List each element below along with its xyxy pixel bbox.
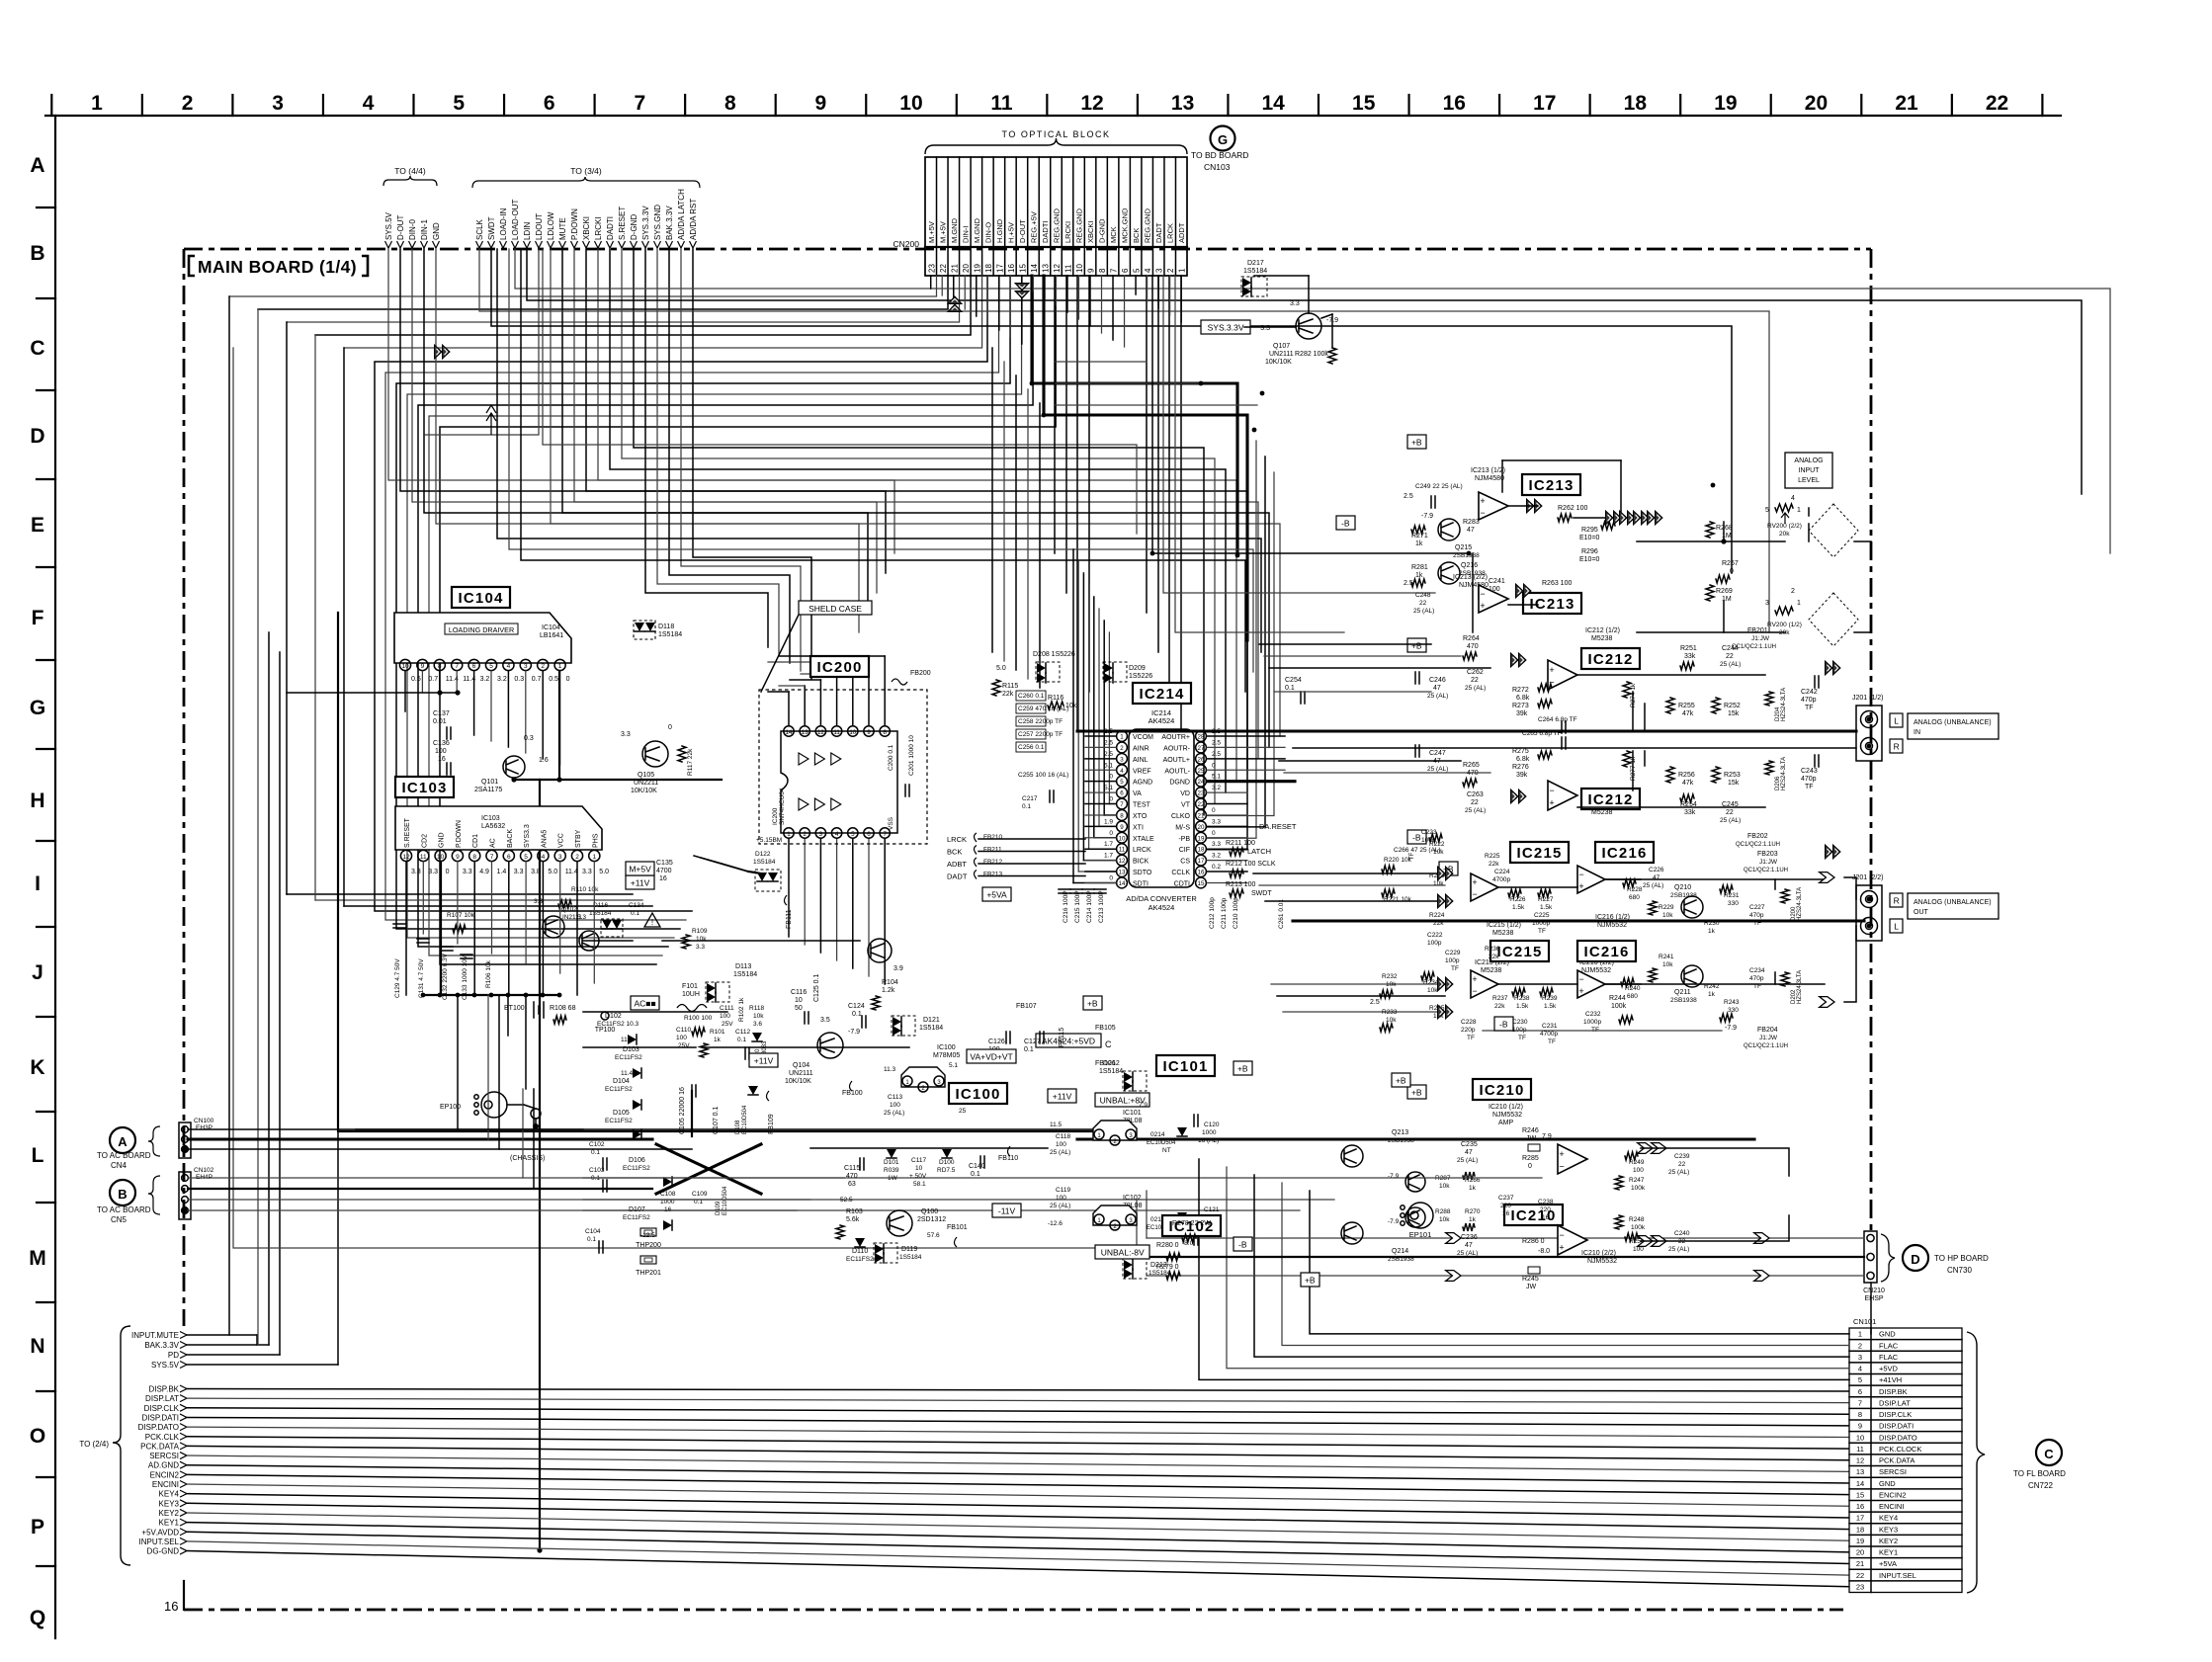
svg-text:0: 0 <box>1109 796 1113 803</box>
boxed label AK4524:+5VD <box>1036 1034 1101 1047</box>
svg-text:C247: C247 <box>1429 750 1446 757</box>
svg-text:R273: R273 <box>1512 703 1529 709</box>
svg-text:TO HP BOARD: TO HP BOARD <box>1934 1254 1989 1263</box>
arrow up CN200 pin20 <box>948 296 962 312</box>
svg-text:3.5: 3.5 <box>820 1017 830 1024</box>
op-amp IC212 (2/2) <box>1548 781 1577 810</box>
svg-text:0.1: 0.1 <box>591 1149 600 1156</box>
svg-text:R107 10k: R107 10k <box>447 912 475 919</box>
svg-text:R263 100: R263 100 <box>1542 580 1572 587</box>
svg-text:D101: D101 <box>884 1159 899 1166</box>
svg-text:Q211: Q211 <box>1674 989 1691 996</box>
svg-text:9: 9 <box>867 729 871 736</box>
svg-text:R243: R243 <box>1724 999 1740 1006</box>
svg-text:25 (AL): 25 (AL) <box>1427 766 1448 773</box>
svg-text:0.01: 0.01 <box>433 718 447 725</box>
svg-text:2SB1938: 2SB1938 <box>1453 552 1480 559</box>
wire lower power rails <box>583 1177 844 1179</box>
svg-text:0.3: 0.3 <box>514 676 524 683</box>
svg-text:LRCKI: LRCKI <box>594 216 603 240</box>
svg-text:R106 10k: R106 10k <box>485 959 492 988</box>
svg-text:SWDT: SWDT <box>487 216 496 240</box>
svg-text:D108: D108 <box>735 1120 741 1134</box>
hatched chevron IC215 in <box>1438 867 1454 880</box>
svg-text:R248: R248 <box>1629 1216 1645 1223</box>
resistor R274 R277 1k <box>1623 682 1631 698</box>
svg-text:+: + <box>1480 601 1485 611</box>
svg-text:3.8: 3.8 <box>531 869 541 875</box>
svg-text:AOUTL+: AOUTL+ <box>1163 757 1190 764</box>
svg-text:10k: 10k <box>753 1013 764 1020</box>
svg-text:R117 22k: R117 22k <box>687 748 694 776</box>
svg-text:C133 1000 10V: C133 1000 10V <box>462 955 468 1000</box>
svg-text:KEY4: KEY4 <box>159 1490 180 1499</box>
svg-text:C258 2200p TF: C258 2200p TF <box>1018 718 1063 725</box>
svg-text:C121: C121 <box>1204 1206 1220 1213</box>
svg-text:R255: R255 <box>1678 703 1695 709</box>
op-amp IC210 label box top <box>1473 1079 1531 1100</box>
svg-text:DISP.DATI: DISP.DATI <box>142 1413 180 1422</box>
svg-text:AOUTL-: AOUTL- <box>1164 768 1190 775</box>
svg-text:C227: C227 <box>1749 904 1765 911</box>
wire headphone bus <box>1077 1137 1754 1140</box>
svg-text:IC200: IC200 <box>817 659 863 676</box>
svg-text:Q210: Q210 <box>1674 884 1691 891</box>
svg-text:R102 1k: R102 1k <box>738 997 745 1022</box>
svg-text:-12.6: -12.6 <box>1048 1220 1063 1227</box>
svg-text:C214 100P: C214 100P <box>1086 890 1093 923</box>
svg-text:R211 100: R211 100 <box>1226 840 1255 847</box>
svg-text:1: 1 <box>592 854 596 861</box>
svg-text:+5VD: +5VD <box>1879 1365 1899 1373</box>
svg-text:100: 100 <box>1633 1167 1644 1174</box>
svg-text:Q107: Q107 <box>1273 343 1290 350</box>
svg-text:25: 25 <box>959 1108 967 1115</box>
svg-text:33k: 33k <box>1684 653 1696 660</box>
svg-text:8: 8 <box>438 663 442 670</box>
svg-text:3: 3 <box>558 854 562 861</box>
svg-text:EHSP: EHSP <box>1864 1295 1883 1302</box>
wire bus CN200 mid fan (family B) <box>375 276 987 911</box>
svg-text:FB115: FB115 <box>1059 1028 1065 1047</box>
svg-text:15: 15 <box>1198 880 1205 887</box>
svg-text:K: K <box>30 1056 44 1079</box>
svg-text:2SB1938: 2SB1938 <box>1670 997 1697 1004</box>
svg-text:-7.9: -7.9 <box>848 1029 860 1036</box>
svg-text:MAIN BOARD (1/4): MAIN BOARD (1/4) <box>198 257 357 277</box>
svg-text:−: − <box>1549 786 1554 795</box>
svg-text:ENCIN2: ENCIN2 <box>1879 1490 1907 1499</box>
svg-text:11: 11 <box>833 729 840 736</box>
wire CN200 right feeders to analog <box>1152 276 1469 553</box>
boxed label M+5V <box>626 862 654 875</box>
svg-text:0.7: 0.7 <box>428 676 438 683</box>
svg-text:7: 7 <box>1858 1398 1862 1407</box>
svg-text:-B: -B <box>1412 832 1421 842</box>
transistor Q104 UN2111 <box>817 1033 843 1058</box>
connector CN100 EH3P to AC board <box>179 1122 191 1158</box>
svg-text:19: 19 <box>973 264 981 273</box>
svg-text:R109: R109 <box>692 928 708 935</box>
op-amp IC210 (2/2) <box>1558 1225 1587 1255</box>
svg-text:SYS.5V: SYS.5V <box>384 211 393 240</box>
svg-text:C246: C246 <box>1429 677 1446 684</box>
svg-text:+B: +B <box>1411 640 1422 650</box>
svg-text:27: 27 <box>1198 745 1205 752</box>
svg-text:50: 50 <box>795 1005 803 1012</box>
svg-text:LRCK: LRCK <box>1166 223 1175 243</box>
svg-text:R232: R232 <box>1382 973 1398 980</box>
svg-text:CCLK: CCLK <box>1171 870 1190 876</box>
svg-text:C103: C103 <box>589 1167 605 1174</box>
svg-text:10: 10 <box>1119 835 1126 842</box>
svg-text:REG.GND: REG.GND <box>1053 208 1062 243</box>
regulator IC103 chip LA5632 <box>395 806 602 850</box>
svg-text:3.2: 3.2 <box>1212 853 1221 860</box>
zener D202 D203 <box>1781 972 1789 986</box>
svg-text:3.3: 3.3 <box>514 869 524 875</box>
svg-text:R212 100 SCLK: R212 100 SCLK <box>1226 861 1276 868</box>
svg-text:R118: R118 <box>749 1005 764 1012</box>
svg-text:G: G <box>30 697 45 719</box>
svg-text:22k: 22k <box>1494 1003 1505 1010</box>
svg-text:19: 19 <box>1856 1537 1864 1545</box>
svg-text:C120: C120 <box>1204 1122 1220 1128</box>
svg-text:FLAC: FLAC <box>1879 1353 1899 1362</box>
svg-text:6: 6 <box>867 831 871 838</box>
svg-text:FB211: FB211 <box>983 847 1002 854</box>
svg-text:C237: C237 <box>1498 1195 1514 1202</box>
svg-text:C248: C248 <box>1415 592 1431 599</box>
svg-text:9: 9 <box>1858 1422 1862 1431</box>
svg-text:1000: 1000 <box>1202 1129 1217 1136</box>
svg-text:SERCSI: SERCSI <box>149 1452 179 1460</box>
svg-text:AK4524: AK4524 <box>1149 716 1175 725</box>
svg-text:IC210 (1/2): IC210 (1/2) <box>1489 1104 1523 1111</box>
svg-text:C135: C135 <box>656 860 673 867</box>
svg-text:KEY2: KEY2 <box>159 1509 180 1518</box>
svg-text:5: 5 <box>453 92 465 115</box>
svg-text:IC212: IC212 <box>1588 651 1634 668</box>
svg-text:R241: R241 <box>1659 954 1674 960</box>
svg-text:21: 21 <box>1895 92 1918 115</box>
svg-text:UN2111: UN2111 <box>1269 351 1294 358</box>
svg-text:47k: 47k <box>1682 780 1694 787</box>
svg-text:C140: C140 <box>969 1163 985 1170</box>
svg-text:+: + <box>1472 974 1477 984</box>
svg-text:22k: 22k <box>1002 691 1014 698</box>
svg-text:R115: R115 <box>1002 683 1018 690</box>
brace TO (2/4) <box>113 1326 130 1565</box>
svg-text:0: 0 <box>1212 807 1216 814</box>
svg-text:C125 0.1: C125 0.1 <box>813 973 820 1002</box>
lamp EP101 <box>1407 1203 1433 1228</box>
svg-text:BCK: BCK <box>947 848 962 857</box>
svg-text:330: 330 <box>1728 900 1739 907</box>
boxed label AC5B <box>631 996 659 1010</box>
svg-text:DISP.BK: DISP.BK <box>148 1385 179 1394</box>
svg-text:R247: R247 <box>1629 1177 1645 1184</box>
arrow chevrons M row <box>1446 1233 1461 1244</box>
svg-text:D104: D104 <box>613 1078 630 1085</box>
svg-text:R104: R104 <box>882 979 898 986</box>
svg-text:DISP.CLK: DISP.CLK <box>1879 1410 1912 1419</box>
svg-text:CN200: CN200 <box>893 239 920 249</box>
svg-text:1S5184: 1S5184 <box>1243 268 1267 275</box>
svg-text:C108: C108 <box>660 1191 676 1198</box>
svg-text:MCK.GND: MCK.GND <box>1121 208 1130 243</box>
svg-text:23: 23 <box>927 264 936 273</box>
svg-text:FLAC: FLAC <box>1879 1341 1899 1350</box>
svg-text:IC213 (2/2): IC213 (2/2) <box>1453 574 1488 581</box>
svg-text:EC10D504: EC10D504 <box>742 1105 748 1134</box>
svg-text:+: + <box>1559 1243 1564 1253</box>
svg-text:5: 5 <box>851 831 855 838</box>
chevron hatched headphone <box>1638 1143 1653 1154</box>
wire bus bottom long lines to CN101 <box>187 1389 1849 1392</box>
svg-text:D-GND: D-GND <box>630 214 638 240</box>
svg-text:IN: IN <box>1914 729 1920 736</box>
svg-text:C112: C112 <box>735 1029 750 1036</box>
op-amp IC101 label box <box>1156 1055 1215 1076</box>
svg-text:5.1: 5.1 <box>1104 785 1113 791</box>
svg-text:C224: C224 <box>1494 869 1510 875</box>
svg-text:1.7: 1.7 <box>1104 841 1113 848</box>
wire thick IC104 net down <box>539 780 541 1550</box>
svg-text:R270: R270 <box>1465 1208 1481 1215</box>
wire CN101 rows 1-5 to left <box>1310 1191 1849 1334</box>
svg-text:EP101: EP101 <box>1409 1230 1432 1239</box>
svg-text:Q102: Q102 <box>561 906 577 913</box>
svg-text:11.4: 11.4 <box>621 1070 634 1077</box>
svg-text:DIN-0: DIN-0 <box>408 219 417 240</box>
transistor Q215 2SB1938 <box>1438 519 1460 540</box>
svg-text:C118: C118 <box>1056 1133 1070 1140</box>
svg-text:HZS24-3LTA: HZS24-3LTA <box>1797 887 1803 921</box>
svg-text:1S5184: 1S5184 <box>899 1254 922 1261</box>
wire Q107 area <box>1244 326 1296 328</box>
svg-text:15: 15 <box>1352 92 1376 115</box>
svg-text:4: 4 <box>1791 495 1795 502</box>
svg-text:52.5: 52.5 <box>840 1197 853 1204</box>
svg-text:TO BD BOARD: TO BD BOARD <box>1191 150 1248 160</box>
svg-text:1: 1 <box>91 92 103 115</box>
op-amp IC215 (1/2) <box>1471 873 1498 901</box>
svg-text:6: 6 <box>544 92 555 115</box>
svg-text:R116: R116 <box>1048 695 1063 702</box>
wire bus IC214 right feeder verticals <box>1207 425 1247 850</box>
svg-text:M78M05: M78M05 <box>933 1052 960 1059</box>
op-amp IC210 (1/2) amp <box>1558 1144 1587 1174</box>
boxed label -B row G <box>1407 830 1426 844</box>
svg-text:12: 12 <box>1119 858 1126 865</box>
svg-text:R221 10k: R221 10k <box>1384 896 1412 903</box>
svg-text:-B: -B <box>1341 518 1350 528</box>
svg-text:REG.+5V: REG.+5V <box>1029 211 1038 243</box>
svg-text:TF: TF <box>1538 928 1546 935</box>
svg-text:0.7: 0.7 <box>532 676 542 683</box>
svg-text:17: 17 <box>1856 1514 1864 1523</box>
svg-text:FB100: FB100 <box>842 1090 863 1097</box>
svg-text:9: 9 <box>456 854 460 861</box>
svg-text:SYS.GND: SYS.GND <box>653 205 662 240</box>
svg-text:220: 220 <box>1500 1203 1511 1209</box>
svg-text:+B: +B <box>1396 1075 1406 1085</box>
svg-text:M+5V: M+5V <box>629 864 651 873</box>
svg-text:GND: GND <box>1879 1330 1896 1339</box>
svg-text:17: 17 <box>1198 858 1205 865</box>
svg-text:H.+5V: H.+5V <box>1006 222 1015 243</box>
svg-text:3.3: 3.3 <box>1290 300 1300 307</box>
boxed label -11V <box>992 1204 1021 1217</box>
svg-text:3.2: 3.2 <box>1212 785 1221 791</box>
svg-text:NJM5532: NJM5532 <box>1492 1112 1522 1119</box>
svg-text:10k: 10k <box>1439 1216 1450 1223</box>
svg-text:6: 6 <box>507 854 511 861</box>
svg-text:4: 4 <box>1858 1365 1862 1373</box>
svg-text:D121: D121 <box>923 1017 940 1024</box>
svg-text:C129 4.7 50V: C129 4.7 50V <box>394 958 401 998</box>
svg-text:D-GND: D-GND <box>1098 218 1107 243</box>
wire IC214 to IC212 feeders <box>1259 643 1431 645</box>
svg-text:11.4: 11.4 <box>621 1037 634 1043</box>
svg-text:DSIP.LAT: DSIP.LAT <box>1879 1398 1911 1407</box>
svg-text:FB210: FB210 <box>983 834 1003 841</box>
svg-text:F101: F101 <box>682 983 698 990</box>
svg-text:3: 3 <box>1155 268 1164 273</box>
svg-text:0.5: 0.5 <box>411 676 421 683</box>
svg-text:R282 100k: R282 100k <box>1295 351 1328 358</box>
svg-text:C110: C110 <box>676 1027 691 1034</box>
node B circle <box>110 1180 135 1205</box>
svg-text:D118: D118 <box>658 623 674 630</box>
wire B connector to power area <box>188 1177 1421 1179</box>
svg-text:D122: D122 <box>755 851 771 858</box>
svg-text:20k: 20k <box>1779 531 1790 538</box>
svg-text:+: + <box>1549 665 1554 675</box>
wire bus stubs group2 to IC214 (family C) <box>551 249 1280 736</box>
svg-text:2.5: 2.5 <box>1404 493 1413 500</box>
svg-text:HZS24-3LTA: HZS24-3LTA <box>1781 688 1787 721</box>
svg-text:1000p: 1000p <box>1583 1019 1601 1026</box>
svg-text:AD/DA RST: AD/DA RST <box>689 199 698 240</box>
svg-text:2SA1175: 2SA1175 <box>474 787 502 793</box>
op-amp lower bank wires <box>1498 886 1577 888</box>
svg-text:+B: +B <box>1305 1275 1316 1285</box>
svg-text:EC11FS2 10.3: EC11FS2 10.3 <box>597 1021 639 1028</box>
svg-text:TF: TF <box>1548 1039 1556 1045</box>
svg-text:Q214: Q214 <box>1392 1248 1408 1255</box>
svg-text:R264: R264 <box>1463 635 1480 642</box>
border ruler top ticks <box>50 95 52 116</box>
svg-text:1: 1 <box>1178 268 1187 273</box>
svg-text:2.5: 2.5 <box>1212 751 1221 758</box>
svg-text:10k: 10k <box>1386 981 1397 988</box>
svg-text:1: 1 <box>1858 1330 1862 1339</box>
diode D213 1S5184 <box>1123 1259 1147 1279</box>
svg-text:R271: R271 <box>1411 533 1428 540</box>
svg-text:NJM5532: NJM5532 <box>1587 1258 1617 1265</box>
svg-text:R224: R224 <box>1429 912 1445 919</box>
svg-text:C238: C238 <box>1538 1199 1554 1205</box>
svg-text:C132 2200 6.3V: C132 2200 6.3V <box>442 953 449 1000</box>
svg-text:5.0: 5.0 <box>599 869 609 875</box>
svg-text:680: 680 <box>1629 894 1640 901</box>
svg-text:NT: NT <box>1162 1147 1171 1154</box>
svg-text:KEY1: KEY1 <box>159 1519 180 1528</box>
wire bus IC214 left feeder verticals <box>1072 549 1074 882</box>
svg-text:24: 24 <box>1198 779 1205 786</box>
svg-text:12: 12 <box>1053 264 1062 273</box>
svg-text:RV200 (1/2): RV200 (1/2) <box>1767 622 1802 628</box>
svg-text:C119: C119 <box>1056 1187 1070 1194</box>
svg-text:C263: C263 <box>1467 791 1484 798</box>
svg-text:UN2211: UN2211 <box>634 780 658 787</box>
svg-text:15: 15 <box>1856 1490 1864 1499</box>
svg-text:13: 13 <box>1171 92 1194 115</box>
svg-text:+5V.AVDD: +5V.AVDD <box>141 1528 179 1537</box>
svg-text:CN4: CN4 <box>111 1161 128 1170</box>
svg-text:DG-GND: DG-GND <box>147 1547 180 1556</box>
svg-text:C210 100p: C210 100p <box>1233 897 1239 929</box>
svg-text:B: B <box>118 1187 127 1202</box>
svg-text:TO (2/4): TO (2/4) <box>79 1440 109 1449</box>
wire analog out bus thick <box>1293 919 1864 922</box>
svg-text:IC215: IC215 <box>1497 944 1543 960</box>
svg-text:16: 16 <box>1198 870 1205 876</box>
resistor R263 100 <box>1516 584 1532 598</box>
svg-text:KEY3: KEY3 <box>159 1499 180 1508</box>
transistor Q211 2SB1938 <box>1681 965 1703 987</box>
svg-text:GND: GND <box>439 832 446 848</box>
svg-text:P.DOWN: P.DOWN <box>456 820 463 848</box>
svg-text:2SB1938: 2SB1938 <box>1670 892 1697 899</box>
svg-text:-7.9: -7.9 <box>1388 1218 1400 1225</box>
svg-text:VCOM: VCOM <box>1133 734 1153 741</box>
svg-text:3.3: 3.3 <box>1212 841 1221 848</box>
svg-text:12: 12 <box>817 729 824 736</box>
svg-text:25 (AL): 25 (AL) <box>1643 882 1663 889</box>
svg-text:1.9: 1.9 <box>1104 818 1113 825</box>
chevron open row I2 <box>1820 997 1834 1008</box>
svg-text:100k: 100k <box>1631 1185 1646 1192</box>
svg-text:L: L <box>1894 715 1899 725</box>
svg-text:C215 100P: C215 100P <box>1074 890 1081 923</box>
svg-text:+B: +B <box>1411 1087 1422 1097</box>
svg-text:8: 8 <box>1858 1410 1862 1419</box>
svg-text:R276: R276 <box>1512 764 1529 771</box>
svg-text:S.RESET: S.RESET <box>618 207 627 240</box>
svg-text:IC200: IC200 <box>772 807 779 825</box>
transistor Q105 UN2211 <box>642 741 668 767</box>
svg-text:−: − <box>1559 1230 1564 1240</box>
svg-text:20: 20 <box>962 264 971 273</box>
svg-text:22: 22 <box>1471 677 1479 684</box>
svg-text:INPUT.MUTE: INPUT.MUTE <box>131 1331 179 1340</box>
svg-text:−: − <box>1480 508 1485 518</box>
svg-text:FB109: FB109 <box>768 1114 775 1134</box>
svg-text:0.2: 0.2 <box>1212 864 1221 871</box>
svg-text:FB203: FB203 <box>1757 851 1778 858</box>
svg-text:680: 680 <box>1627 993 1638 1000</box>
svg-text:+41VH: +41VH <box>1879 1375 1902 1384</box>
wire bus CN200 deep drops <box>1032 276 1237 555</box>
wire bus left spine verticals <box>228 296 230 1335</box>
svg-text:470: 470 <box>846 1173 858 1180</box>
svg-text:QC1/QC2:1.1UH: QC1/QC2:1.1UH <box>1736 842 1780 848</box>
svg-text:C131 4.7 50V: C131 4.7 50V <box>418 958 425 998</box>
svg-text:R256: R256 <box>1678 772 1695 779</box>
